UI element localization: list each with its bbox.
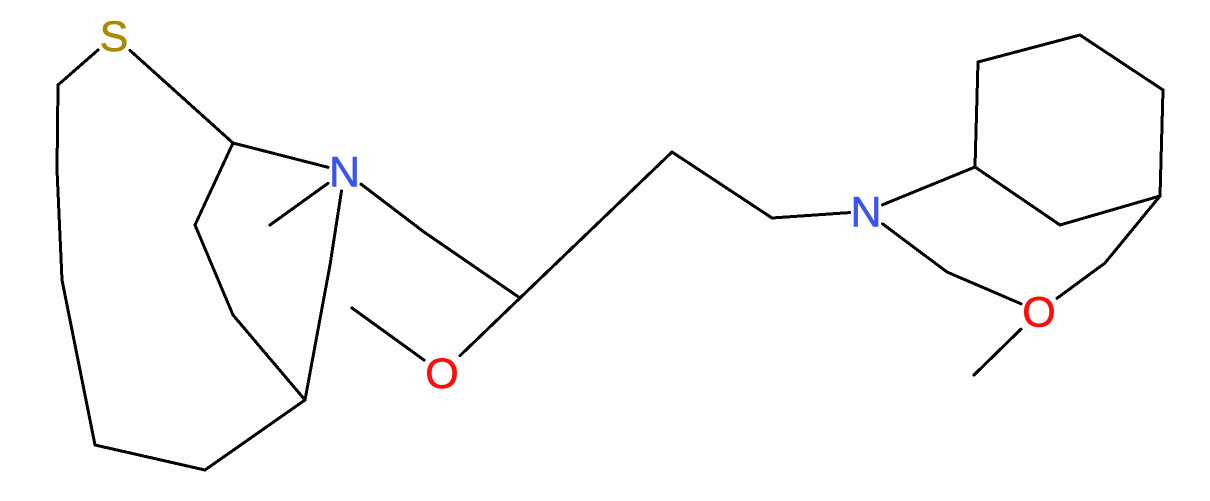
- bond S–C2: [58, 50, 98, 85]
- bond hex br: [1060, 196, 1160, 225]
- bond C5–C6: [205, 400, 305, 470]
- bond C7–N1: [330, 191, 342, 265]
- svg-text:N: N: [850, 189, 881, 237]
- bond N2–A1: [883, 224, 948, 272]
- svg-text:S: S: [100, 13, 129, 61]
- bond hex left: [975, 62, 978, 167]
- bond O2–CH3: [974, 329, 1021, 375]
- bond N2–BL: [883, 167, 976, 205]
- bond N1–C8: [233, 143, 328, 167]
- bond C6–C7: [305, 265, 330, 400]
- bond C8–C9: [195, 143, 233, 225]
- svg-text:N: N: [329, 149, 360, 197]
- bond C4–C5: [95, 445, 205, 470]
- bond hex right: [1160, 90, 1163, 196]
- bond hex tr: [1080, 35, 1163, 90]
- bond C4a–C4: [62, 280, 95, 445]
- svg-text:O: O: [425, 350, 458, 398]
- bond N1–CH3: [270, 183, 328, 225]
- bond V–O2: [1057, 263, 1105, 298]
- bond N1–CH2: [361, 184, 424, 232]
- svg-text:O: O: [1022, 289, 1055, 337]
- bond CH–O1: [460, 298, 520, 356]
- bond O1–CH3: [352, 308, 424, 360]
- bond chain–N2: [772, 213, 850, 218]
- bond hex tl: [978, 35, 1080, 62]
- bond C2–C3: [57, 85, 58, 170]
- bond C10–C6: [233, 315, 305, 400]
- bond A1–O2: [947, 272, 1021, 304]
- bond C9–C10: [195, 225, 233, 315]
- bond C3–C4a: [57, 170, 62, 280]
- bond chain down: [672, 152, 772, 218]
- bond BR–V: [1105, 196, 1160, 263]
- bond CH2–CH2: [424, 232, 520, 298]
- bond S–C8 long: [130, 50, 233, 143]
- bond hex bl: [975, 167, 1060, 225]
- bond chain up: [520, 152, 672, 298]
